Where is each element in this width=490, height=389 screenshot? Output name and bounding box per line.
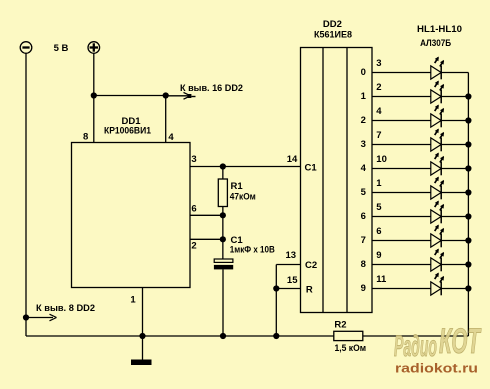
wire output 2 stub [372, 120, 431, 122]
svg-text:КР1006ВИ1: КР1006ВИ1 [104, 126, 152, 137]
arrow to pin 8 DD2 [26, 314, 57, 321]
wire LED 0 to bus [441, 72, 468, 74]
svg-text:4: 4 [168, 132, 174, 143]
svg-text:4: 4 [361, 163, 367, 174]
svg-text:1: 1 [361, 91, 367, 102]
node bus row 5 [465, 189, 471, 195]
node C1 bus junction [220, 333, 226, 339]
svg-text:К выв. 8 DD2: К выв. 8 DD2 [36, 303, 95, 314]
capacitor C1 (electrolytic) [214, 259, 233, 336]
wire output 6 stub [372, 216, 431, 218]
wire right bus [467, 73, 469, 337]
svg-text:R2: R2 [334, 320, 346, 331]
wire R input stub [276, 288, 300, 290]
svg-text:radiokot.ru: radiokot.ru [395, 362, 478, 376]
node bus row 2 [465, 117, 471, 123]
wire LED 6 to bus [441, 216, 468, 218]
wire output 4 stub [372, 168, 431, 170]
svg-text:1: 1 [376, 178, 382, 189]
svg-text:Радио: Радио [394, 330, 437, 363]
LED HL5 [431, 153, 444, 176]
wire output 9 stub [372, 288, 431, 290]
node R1 top [220, 163, 226, 169]
terminal plus (+5V) [88, 42, 100, 54]
svg-text:2: 2 [376, 82, 381, 93]
node bus row 1 [465, 93, 471, 99]
svg-text:АЛ307Б: АЛ307Б [420, 38, 451, 49]
LED HL8 [431, 225, 444, 248]
LED HL3 [431, 105, 444, 128]
node pin1 bus junction [139, 333, 145, 339]
wire LED 5 to bus [441, 192, 468, 194]
node R input junction [273, 285, 279, 291]
wire LED 8 to bus [441, 264, 468, 266]
wire pin1 DD1 to bus [142, 288, 144, 337]
wire output 1 stub [372, 96, 431, 98]
svg-text:К выв. 16 DD2: К выв. 16 DD2 [180, 83, 243, 94]
svg-text:4: 4 [376, 106, 382, 117]
node bus row 8 [465, 261, 471, 267]
LED HL10 [431, 273, 444, 296]
svg-text:8: 8 [83, 131, 88, 142]
LED HL4 [431, 129, 444, 152]
wire pin2 DD1 [190, 238, 223, 240]
svg-text:HL1-HL10: HL1-HL10 [417, 24, 462, 35]
node bus row 3 [465, 141, 471, 147]
svg-text:5: 5 [376, 202, 382, 213]
node pin2 junction [220, 236, 226, 242]
node bus row 4 [465, 165, 471, 171]
wire C2 input stub [276, 264, 300, 266]
wire bottom bus left [26, 335, 334, 337]
svg-text:3: 3 [376, 58, 381, 69]
wire pin6 DD1 [190, 214, 223, 216]
wire output 7 stub [372, 240, 431, 242]
svg-text:1: 1 [130, 295, 136, 306]
svg-text:2: 2 [191, 241, 196, 252]
svg-text:1мкФ х 10В: 1мкФ х 10В [230, 245, 275, 256]
svg-text:3: 3 [361, 139, 366, 150]
svg-text:14: 14 [287, 154, 298, 165]
wire output 8 stub [372, 264, 431, 266]
svg-text:0: 0 [361, 67, 366, 78]
wire pin 4 DD1 [165, 96, 167, 143]
svg-text:7: 7 [376, 130, 381, 141]
terminal minus (-5V) [20, 42, 32, 54]
svg-text:8: 8 [361, 259, 366, 270]
wire LED 4 to bus [441, 168, 468, 170]
counter DD2 box [301, 48, 373, 313]
svg-text:R1: R1 [231, 181, 244, 192]
svg-text:47кОм: 47кОм [230, 192, 256, 203]
wire LED 3 to bus [441, 144, 468, 146]
LED HL9 [431, 249, 444, 272]
timer DD1 box [72, 143, 191, 288]
wire R1 bottom to C1 [222, 215, 224, 259]
arrow to pin 16 DD2 [166, 92, 196, 99]
svg-text:9: 9 [376, 250, 381, 261]
wire output 0 stub [372, 72, 431, 74]
svg-text:C1: C1 [305, 163, 318, 174]
resistor R2 [334, 331, 363, 340]
node bus junction [273, 333, 279, 339]
svg-text:3: 3 [191, 154, 196, 165]
svg-text:13: 13 [286, 250, 297, 261]
svg-text:11: 11 [376, 274, 387, 285]
svg-text:5: 5 [361, 187, 367, 198]
svg-text:9: 9 [361, 283, 366, 294]
wire plus rail horizontal [94, 95, 166, 97]
watermark Радио КОТ [394, 322, 482, 363]
svg-text:7: 7 [361, 235, 366, 246]
wire pin3 DD1 to pin14 DD2 [190, 166, 301, 168]
svg-text:R: R [306, 285, 313, 296]
node bus row 9 [465, 285, 471, 291]
wire pin 8 DD1 [93, 96, 95, 143]
svg-text:C2: C2 [305, 260, 317, 271]
svg-text:DD2: DD2 [323, 19, 342, 30]
svg-text:5 В: 5 В [54, 43, 69, 54]
wire LED 9 to bus [441, 288, 468, 290]
svg-text:1,5 кОм: 1,5 кОм [335, 343, 367, 354]
wire plus rail vertical [93, 54, 95, 96]
wire output 5 stub [372, 192, 431, 194]
svg-text:6: 6 [191, 204, 196, 215]
resistor R1 [218, 167, 227, 216]
LED HL7 [431, 201, 444, 224]
node plus/pin8 junction [91, 92, 97, 98]
wire LED 1 to bus [441, 96, 468, 98]
LED HL1 [431, 57, 444, 80]
svg-text:6: 6 [376, 226, 381, 237]
node bus row 6 [465, 213, 471, 219]
svg-text:10: 10 [376, 154, 387, 165]
wire LED 2 to bus [441, 120, 468, 122]
node bus row 7 [465, 237, 471, 243]
wire bottom bus right [363, 335, 469, 337]
node pin6 junction [220, 212, 226, 218]
svg-text:КОТ: КОТ [439, 322, 482, 361]
wire output 3 stub [372, 144, 431, 146]
ground [131, 336, 152, 365]
node on minus rail [23, 314, 29, 320]
svg-text:15: 15 [287, 275, 298, 286]
LED HL6 [431, 177, 444, 200]
wire LED 7 to bus [441, 240, 468, 242]
node pin4 junction [163, 92, 169, 98]
svg-text:6: 6 [361, 211, 366, 222]
svg-text:К561ИЕ8: К561ИЕ8 [314, 30, 352, 41]
wire minus rail vertical [25, 54, 27, 337]
LED HL2 [431, 81, 444, 104]
svg-text:2: 2 [361, 115, 366, 126]
wire C2-R vertical [275, 265, 277, 337]
